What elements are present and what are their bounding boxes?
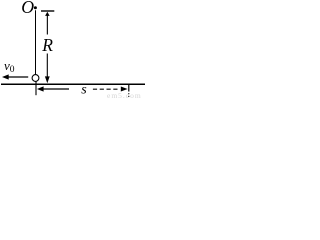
s dimension right arrow [121,87,128,92]
svg-text:s: s [81,83,87,98]
R dimension top tick bar [41,10,54,12]
R dimension down arrow [45,54,50,84]
drop line from O to ball [35,10,37,74]
ball [32,75,39,82]
s dimension left tick [35,81,37,95]
s dimension left arrow [37,86,69,91]
pivot dot [34,6,37,9]
s dimension dashed segments [93,88,119,90]
svg-text:em5.com: em5.com [107,91,142,99]
svg-text:R: R [41,35,53,55]
v0 arrow [2,74,28,79]
R dimension up arrow [45,12,50,35]
svg-text:O: O [21,0,34,17]
s dimension right tick [128,85,129,97]
ground line [1,83,145,85]
